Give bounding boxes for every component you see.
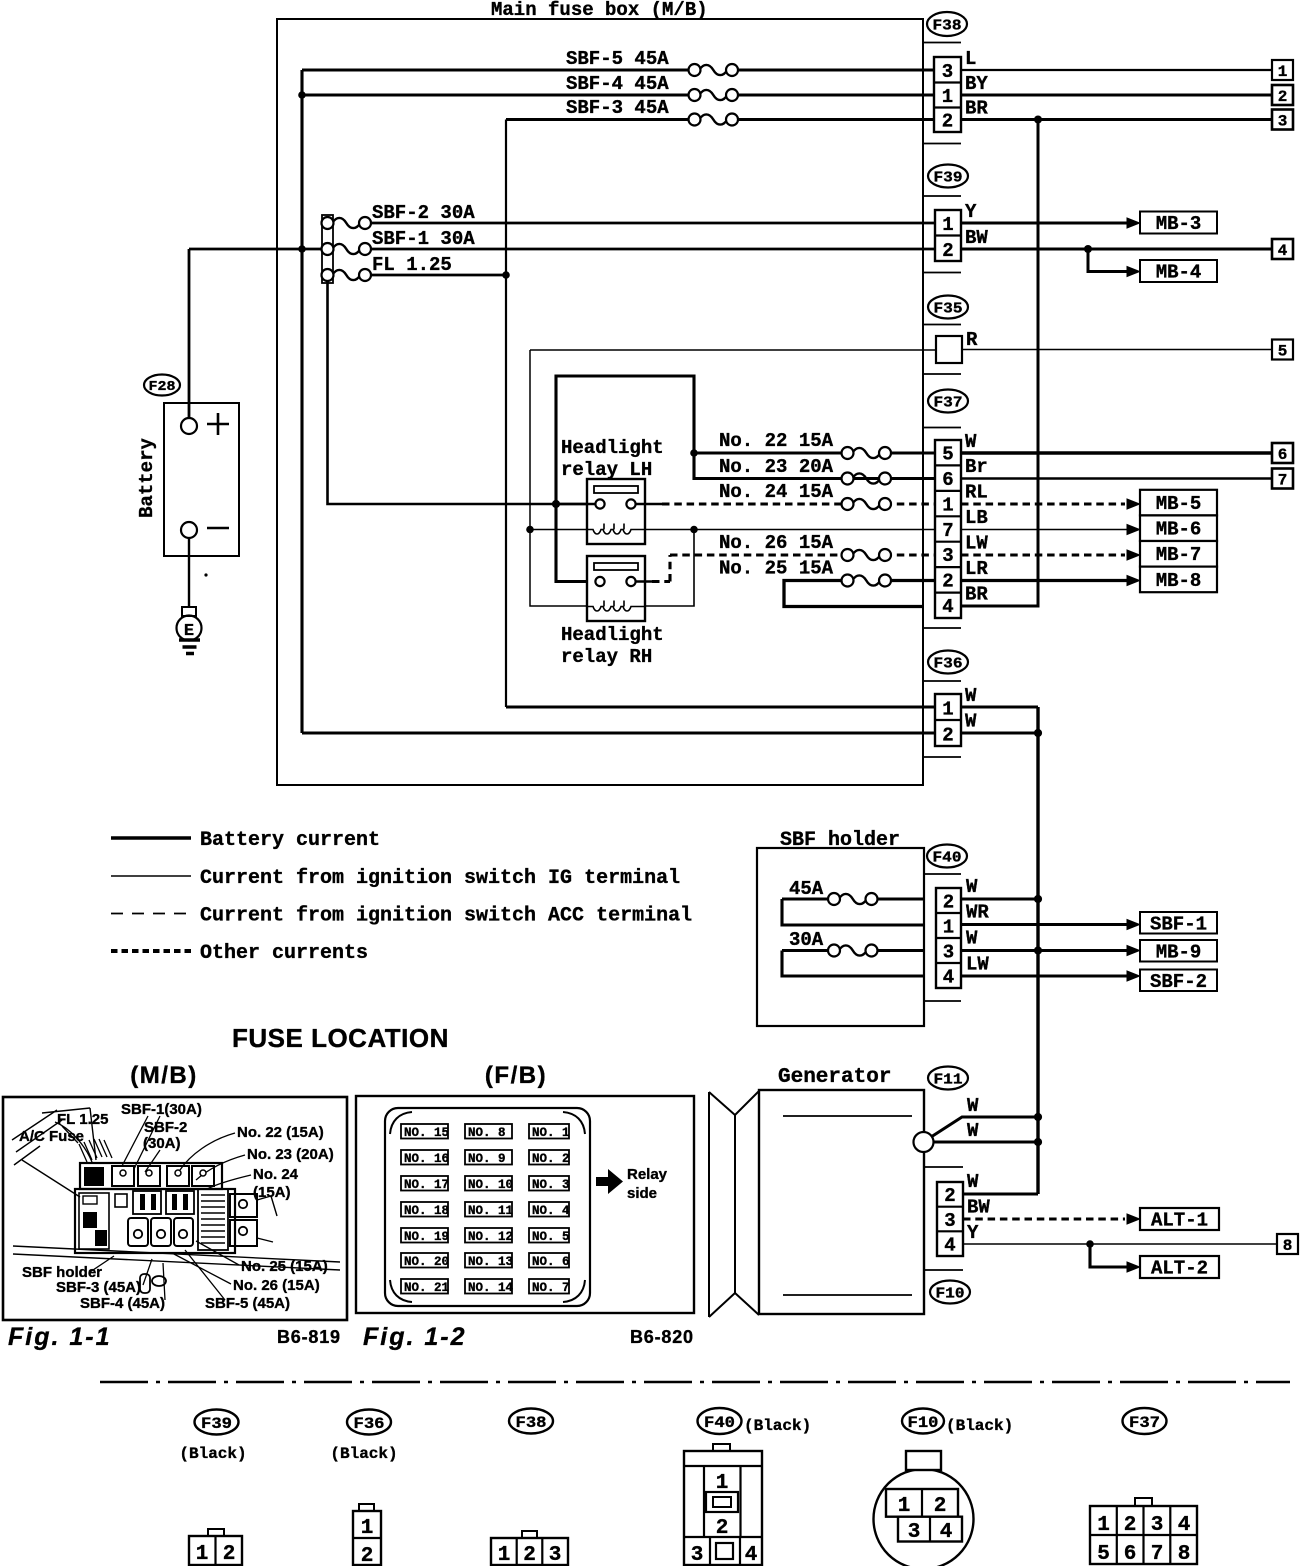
connector oval F36: [928, 651, 968, 674]
wire 45A loop to pin 1: [782, 899, 924, 925]
svg-text:NO. 3: NO. 3: [532, 1178, 570, 1192]
wire 45A fuse row: [782, 897, 924, 900]
svg-text:2: 2: [943, 892, 954, 914]
svg-text:NO. 8: NO. 8: [468, 1126, 506, 1140]
svg-text:No. 22 (15A): No. 22 (15A): [237, 1124, 324, 1141]
svg-text:4: 4: [940, 1521, 953, 1544]
svg-text:BW: BW: [965, 227, 988, 249]
wire W from B terminal: [934, 1141, 1039, 1144]
wire FL row: [364, 274, 506, 277]
svg-text:Headlight: Headlight: [561, 437, 664, 459]
svg-text:SBF-3 45A: SBF-3 45A: [566, 97, 669, 119]
wire Br to box 7: [961, 477, 1272, 479]
svg-text:2: 2: [942, 240, 953, 262]
legend other currents: [111, 942, 368, 965]
svg-text:2: 2: [934, 1495, 947, 1518]
svg-text:NO. 12: NO. 12: [468, 1230, 513, 1244]
svg-text:SBF-2 30A: SBF-2 30A: [372, 202, 475, 224]
connector F37 pins: [935, 440, 961, 618]
destination box 8: [1277, 1234, 1298, 1255]
svg-text:SBF-2: SBF-2: [144, 1119, 187, 1136]
svg-text:F35: F35: [934, 302, 963, 318]
wire R net vertical from F35: [530, 350, 587, 606]
svg-text:Y: Y: [967, 1222, 979, 1244]
svg-text:No. 26 15A: No. 26 15A: [719, 532, 834, 554]
legend battery current: [111, 829, 380, 852]
wire SBF-2 row: [370, 222, 935, 225]
fig 1-1 SBF fuses row: [128, 1218, 193, 1246]
fuse FL 1.25: [322, 269, 372, 281]
svg-text:4: 4: [943, 967, 954, 989]
svg-text:NO. 11: NO. 11: [468, 1204, 513, 1218]
svg-text:F10: F10: [908, 1414, 939, 1432]
wire No.22 row: [694, 451, 935, 454]
svg-text:Battery current: Battery current: [200, 829, 380, 852]
wire contact row junction dot: [552, 500, 560, 508]
fig 1-1 relays: [230, 1194, 277, 1246]
svg-text:3: 3: [944, 1210, 955, 1232]
svg-text:1: 1: [942, 214, 953, 236]
battery vertical feed wire x=302: [300, 70, 303, 733]
wire W to box 6: [961, 451, 1272, 454]
svg-text:8: 8: [1283, 1237, 1293, 1255]
svg-text:Current from ignition switch A: Current from ignition switch ACC termina…: [200, 905, 692, 928]
wire 30A fuse row: [782, 949, 924, 952]
svg-text:LW: LW: [966, 954, 989, 976]
fuse No.24 15A: [842, 498, 892, 510]
svg-text:NO. 9: NO. 9: [468, 1152, 506, 1166]
svg-text:NO. 16: NO. 16: [404, 1152, 449, 1166]
destination box 6: [1272, 443, 1293, 464]
wire LW dashed to MB-7: [961, 553, 1125, 556]
connector oval F28: [144, 375, 180, 396]
junction frame / No.22 row: [690, 449, 698, 457]
svg-text:1: 1: [898, 1495, 911, 1518]
fig 1-1 frame: [3, 1097, 347, 1320]
svg-text:WR: WR: [966, 902, 989, 924]
wire R to box 5: [962, 349, 1272, 351]
svg-text:(Black): (Black): [330, 1445, 397, 1463]
junction W net / B wire: [1034, 1138, 1042, 1146]
wire battery + up to bus row: [188, 249, 191, 418]
connector oval F39 (bottom): [179, 1410, 246, 1464]
svg-text:F28: F28: [149, 380, 176, 395]
fuse No.23 20A: [742, 473, 935, 485]
svg-text:4: 4: [942, 596, 953, 618]
svg-text:1: 1: [1097, 1514, 1110, 1537]
svg-text:SBF-1: SBF-1: [1150, 914, 1207, 936]
svg-text:ALT-2: ALT-2: [1151, 1258, 1208, 1280]
svg-text:4: 4: [944, 1235, 955, 1257]
svg-text:relay RH: relay RH: [561, 646, 652, 668]
wire No.26 dashed jog: [652, 555, 935, 582]
wire RH contact stub right: [636, 580, 652, 583]
svg-text:(Black): (Black): [179, 1445, 246, 1463]
svg-text:F36: F36: [354, 1415, 385, 1433]
svg-text:30A: 30A: [789, 929, 824, 951]
connector F39 pins: [935, 210, 961, 262]
destination box 7: [1272, 469, 1293, 490]
junction battery vert / battery feed row: [298, 245, 306, 253]
svg-text:45A: 45A: [789, 878, 824, 900]
generator pulley: [709, 1091, 759, 1317]
wire F40-2 W to net: [961, 897, 1038, 900]
wire W diagonal to net: [931, 1117, 1038, 1137]
svg-text:Battery: Battery: [136, 438, 158, 518]
svg-text:RL: RL: [965, 482, 988, 504]
wire relay frame down to RH contact: [556, 504, 595, 582]
headlight relay LH: [587, 479, 645, 544]
wire F36 pin2 row from battery vertical: [302, 731, 935, 734]
battery: [136, 403, 239, 556]
svg-text:F37: F37: [934, 396, 963, 412]
SBF holder box: [757, 848, 924, 1026]
svg-text:W: W: [965, 431, 977, 453]
wire BW to box 4: [961, 248, 1272, 251]
svg-text:LR: LR: [965, 558, 988, 580]
svg-text:1: 1: [942, 699, 953, 721]
svg-text:(Black): (Black): [744, 1417, 811, 1435]
svg-text:No. 22 15A: No. 22 15A: [719, 430, 834, 452]
svg-text:W: W: [967, 1095, 979, 1117]
fuse SBF-4 45A: [689, 89, 739, 101]
fig 1-1 middle fuse slots: [115, 1191, 194, 1214]
svg-text:1: 1: [361, 1517, 374, 1540]
wire BW dashed to ALT-1: [963, 1217, 1125, 1220]
svg-text:NO. 15: NO. 15: [404, 1126, 449, 1140]
destination box MB-9: [1140, 940, 1217, 964]
wire BR net vertical to F37 pin 4: [961, 120, 1038, 607]
destination box 5: [1272, 340, 1293, 361]
svg-text:W: W: [967, 1171, 979, 1193]
wire F36-1 W to x1038: [961, 705, 1038, 708]
wire SBF-4 row: [302, 93, 935, 96]
svg-text:side: side: [627, 1185, 657, 1202]
connector face F36: [353, 1504, 381, 1566]
fuse SBF-5 45A: [689, 64, 739, 76]
fuse SBF-1: [322, 243, 372, 255]
svg-text:8: 8: [1178, 1543, 1191, 1566]
wire battery feed row to fuse bus: [189, 248, 322, 251]
connector face F10: [874, 1451, 974, 1566]
svg-text:4: 4: [745, 1544, 758, 1566]
fig 1-1 fuse box body: [75, 1189, 235, 1253]
destination box SBF-2: [1140, 970, 1217, 994]
fuse No.26 15A: [842, 549, 892, 561]
svg-text:R: R: [966, 329, 978, 351]
wire SBF-3 row: [506, 118, 935, 121]
wire No.25 row with under-loop to pin 4: [784, 581, 935, 607]
wire F36 pin1 row from x506: [506, 705, 935, 708]
wire F10-2 W to net: [963, 1193, 1038, 1196]
wire LW to SBF-2: [961, 974, 1128, 977]
svg-text:2: 2: [944, 1185, 955, 1207]
wire LH contact stubs: [556, 503, 662, 506]
svg-text:1: 1: [1278, 63, 1288, 81]
svg-text:1: 1: [942, 495, 953, 517]
connector F36 pins: [935, 694, 961, 747]
svg-text:Relay: Relay: [627, 1166, 668, 1183]
connector F38 pins: [934, 57, 961, 133]
svg-text:SBF-5 45A: SBF-5 45A: [566, 48, 669, 70]
connector oval F40 (bottom): [698, 1408, 812, 1435]
connector oval F39: [928, 165, 968, 188]
svg-text:NO. 13: NO. 13: [468, 1255, 513, 1269]
fig 1-2 relay side arrow: [596, 1166, 668, 1202]
main fuse box boundary: [277, 19, 923, 785]
fuse SBF-2: [322, 217, 372, 229]
svg-text:W: W: [965, 711, 977, 733]
svg-text:4: 4: [1178, 1514, 1191, 1537]
svg-text:4: 4: [1278, 242, 1288, 260]
fig 1-1 hatched strip: [79, 1139, 112, 1162]
svg-text:2: 2: [942, 725, 953, 747]
svg-text:2: 2: [223, 1543, 236, 1566]
svg-text:NO. 10: NO. 10: [468, 1178, 513, 1192]
connector oval F38: [927, 12, 967, 36]
junction W net / F40-2: [1034, 895, 1042, 903]
svg-text:(M/B): (M/B): [130, 1062, 197, 1089]
svg-text:NO. 7: NO. 7: [532, 1281, 570, 1295]
wire 30A loop to pin 4: [782, 951, 924, 977]
destination box MB-3: [1140, 212, 1217, 236]
fuse SBF 45A: [828, 893, 878, 905]
fuse SBF-3 45A: [689, 114, 739, 126]
svg-text:SBF-1(30A): SBF-1(30A): [121, 1101, 202, 1118]
generator inner lines: [783, 1116, 912, 1295]
fig 1-1 mini fuse stack: [198, 1189, 228, 1250]
generator box: [759, 1090, 924, 1314]
svg-text:NO. 4: NO. 4: [532, 1204, 570, 1218]
svg-text:Fig. 1-2: Fig. 1-2: [363, 1323, 467, 1351]
connector oval F38 (bottom): [509, 1409, 553, 1434]
svg-text:NO. 6: NO. 6: [532, 1255, 570, 1269]
junction W net / F40-3: [1034, 946, 1042, 954]
svg-text:MB-7: MB-7: [1156, 544, 1202, 566]
svg-text:2: 2: [1278, 88, 1288, 106]
connector bracket line with section ticks: [923, 43, 961, 758]
destination box 1: [1272, 60, 1293, 81]
svg-text:NO. 17: NO. 17: [404, 1178, 449, 1192]
destination boxes MB-5 MB-6 MB-7 MB-8: [1140, 490, 1217, 592]
junction battery vert / SBF-4 row: [298, 91, 306, 99]
svg-text:F38: F38: [516, 1414, 547, 1432]
svg-text:(Black): (Black): [946, 1417, 1013, 1435]
wire LH coil row to LB row: [530, 529, 935, 531]
fig 1-2 frame: [356, 1096, 694, 1313]
svg-text:relay LH: relay LH: [561, 459, 652, 481]
battery + terminal: [181, 413, 229, 435]
wire L to box 1: [961, 69, 1272, 71]
svg-text:F39: F39: [201, 1415, 232, 1433]
wire Y to box 8: [963, 1243, 1277, 1245]
destination box ALT-2: [1140, 1256, 1219, 1280]
svg-text:6: 6: [1278, 446, 1288, 464]
fuse No.22 15A: [842, 447, 892, 459]
svg-text:5: 5: [942, 444, 953, 466]
svg-text:3: 3: [1151, 1514, 1164, 1537]
battery - terminal: [181, 522, 229, 538]
svg-text:NO. 18: NO. 18: [404, 1204, 449, 1218]
wire RL dashed to MB-5: [961, 502, 1125, 505]
wire LB to MB-6: [961, 529, 1128, 531]
svg-text:(30A): (30A): [143, 1135, 181, 1152]
svg-text:NO. 21: NO. 21: [404, 1281, 449, 1295]
fig 1-1 car body sketch: [12, 1108, 340, 1270]
stray speck: [204, 573, 207, 576]
svg-text:SBF-4 (45A): SBF-4 (45A): [80, 1295, 165, 1312]
svg-text:No. 24: No. 24: [253, 1166, 299, 1183]
svg-text:2: 2: [1124, 1514, 1137, 1537]
svg-text:2: 2: [361, 1545, 374, 1566]
svg-text:MB-8: MB-8: [1156, 570, 1202, 592]
svg-text:(F/B): (F/B): [485, 1062, 547, 1089]
junction LB row / RH coil branch: [690, 526, 698, 534]
wire F36-2 W to x1038: [961, 731, 1038, 734]
wire bus down to relay contact row: [328, 281, 592, 504]
svg-text:MB-5: MB-5: [1156, 493, 1202, 515]
wire R row left of F35: [530, 349, 936, 351]
junction Y row / ALT-2 branch: [1086, 1240, 1094, 1248]
svg-text:F40: F40: [704, 1414, 735, 1432]
wire battery - down to ground: [188, 538, 190, 607]
svg-text:Current from ignition switch I: Current from ignition switch IG terminal: [200, 867, 680, 890]
bracket ticks F40: [924, 874, 961, 1001]
svg-text:3: 3: [1278, 113, 1288, 131]
svg-text:FL 1.25: FL 1.25: [57, 1111, 108, 1128]
svg-text:1: 1: [943, 917, 954, 939]
svg-text:W: W: [967, 1120, 979, 1142]
svg-text:7: 7: [1151, 1543, 1164, 1566]
svg-text:B6-820: B6-820: [630, 1327, 694, 1347]
svg-text:2: 2: [716, 1517, 729, 1540]
svg-text:ALT-1: ALT-1: [1151, 1210, 1208, 1232]
legend ACC current: [111, 905, 692, 928]
wire branch to MB-4: [1088, 249, 1128, 272]
svg-text:NO. 2: NO. 2: [532, 1152, 570, 1166]
svg-text:Headlight: Headlight: [561, 624, 664, 646]
svg-text:1: 1: [942, 86, 953, 108]
fig 1-2 screen: [385, 1108, 590, 1306]
wire No.24 dashed row: [662, 502, 935, 505]
svg-text:F39: F39: [934, 171, 963, 187]
fig 1-1 fuse box top strip: [80, 1163, 222, 1189]
section divider: [100, 1381, 1290, 1383]
svg-text:SBF-2: SBF-2: [1150, 971, 1207, 993]
svg-text:Main fuse box (M/B): Main fuse box (M/B): [491, 0, 708, 21]
wire SBF-5 row: [302, 68, 935, 71]
svg-text:W: W: [966, 876, 978, 898]
svg-text:NO. 1: NO. 1: [532, 1126, 570, 1140]
wire WR to SBF-1: [961, 923, 1128, 926]
connector oval F10 (bottom): [902, 1409, 1013, 1436]
svg-text:SBF-1 30A: SBF-1 30A: [372, 228, 475, 250]
fig 1-1 bolt detail: [140, 1274, 166, 1293]
svg-text:FUSE LOCATION: FUSE LOCATION: [232, 1023, 449, 1053]
svg-text:BR: BR: [965, 98, 988, 120]
wire LR to MB-8: [961, 579, 1128, 582]
connector oval F10: [930, 1281, 970, 1304]
connector face F39: [189, 1529, 242, 1566]
svg-text:F40: F40: [933, 851, 962, 867]
ground E symbol: [177, 607, 202, 654]
fusible link bus holder: [322, 215, 334, 283]
svg-text:W: W: [965, 685, 977, 707]
svg-text:7: 7: [1278, 472, 1288, 490]
svg-text:MB-4: MB-4: [1156, 262, 1202, 284]
svg-text:3: 3: [942, 61, 953, 83]
svg-text:3: 3: [943, 942, 954, 964]
svg-text:LW: LW: [965, 533, 988, 555]
junction FL row / x506: [502, 271, 510, 279]
svg-text:3: 3: [691, 1544, 704, 1566]
svg-text:F11: F11: [934, 1073, 963, 1089]
svg-text:BY: BY: [965, 73, 988, 95]
svg-text:No. 23 20A: No. 23 20A: [719, 456, 834, 478]
connector oval F36 (bottom): [330, 1410, 397, 1464]
svg-text:BR: BR: [965, 584, 988, 606]
svg-text:2: 2: [942, 111, 953, 133]
svg-text:W: W: [966, 928, 978, 950]
destination box ALT-1: [1140, 1208, 1219, 1232]
svg-text:3: 3: [942, 545, 953, 567]
svg-text:NO. 14: NO. 14: [468, 1281, 514, 1295]
fuse SBF 30A: [828, 945, 878, 957]
destination box MB-4: [1140, 260, 1217, 284]
svg-text:3: 3: [549, 1544, 562, 1566]
connector F40 pins: [936, 888, 961, 989]
svg-text:Fig. 1-1: Fig. 1-1: [8, 1323, 112, 1351]
destination box 3: [1272, 110, 1293, 131]
wire SBF-1 row: [364, 248, 935, 251]
svg-text:F37: F37: [1129, 1414, 1160, 1432]
svg-text:2: 2: [942, 571, 953, 593]
svg-text:2: 2: [523, 1544, 536, 1566]
svg-text:6: 6: [942, 469, 953, 491]
wire RH coil right branch: [645, 530, 694, 607]
svg-text:5: 5: [1278, 343, 1288, 361]
svg-text:Br: Br: [965, 456, 988, 478]
connector F35 terminal square: [936, 336, 962, 363]
fig 1-1 leader lines: [55, 1116, 251, 1300]
fig 1-2 fuse grid: [401, 1124, 570, 1295]
svg-text:SBF-4 45A: SBF-4 45A: [566, 73, 669, 95]
bracket ticks F10: [924, 1167, 963, 1270]
svg-text:Y: Y: [965, 201, 977, 223]
svg-text:MB-6: MB-6: [1156, 519, 1202, 541]
svg-text:LB: LB: [965, 507, 988, 529]
svg-text:MB-3: MB-3: [1156, 213, 1202, 235]
junction R net / LH coil row: [526, 526, 534, 534]
junction BR row / x1038 vertical: [1034, 116, 1042, 124]
connector face F37: [1090, 1498, 1197, 1566]
svg-text:Generator: Generator: [778, 1066, 891, 1089]
fuse No.25 15A: [842, 575, 892, 587]
generator B terminal: [914, 1132, 934, 1152]
junction BW row / MB-4 branch: [1084, 245, 1092, 253]
svg-text:NO. 19: NO. 19: [404, 1230, 449, 1244]
svg-text:No. 23 (20A): No. 23 (20A): [247, 1146, 334, 1163]
connector face F40: [684, 1444, 762, 1566]
connector oval F11: [928, 1067, 968, 1090]
junction W net top: [1034, 1113, 1042, 1121]
connector oval F35: [928, 296, 968, 319]
wire F40-3 W to MB-9: [961, 949, 1128, 952]
svg-text:SBF-5 (45A): SBF-5 (45A): [205, 1295, 290, 1312]
wire branch to ALT-2: [1090, 1244, 1128, 1267]
connector oval F37: [928, 390, 968, 413]
svg-text:5: 5: [1097, 1543, 1110, 1566]
